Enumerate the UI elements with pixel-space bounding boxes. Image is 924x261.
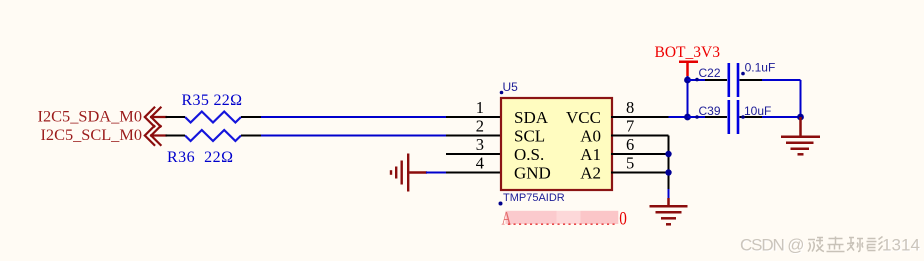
svg-text:A: A xyxy=(502,208,512,229)
wire A0/A1/A2 bus down xyxy=(668,136,670,191)
ground (below A2) xyxy=(650,198,688,224)
svg-text:R36 22Ω: R36 22Ω xyxy=(167,149,233,166)
junction (C39 right / down wire) xyxy=(797,114,804,121)
svg-text:CSDN @: CSDN @ xyxy=(740,236,805,255)
resistor R35 xyxy=(185,112,241,123)
svg-text:R35 22Ω: R35 22Ω xyxy=(182,92,243,109)
svg-text:10uF: 10uF xyxy=(744,104,771,118)
svg-text:C22: C22 xyxy=(699,66,721,80)
off-page connector I2C5_SDA_M0 xyxy=(145,108,166,127)
junction (rail / C39 / pin8) xyxy=(684,114,691,121)
wire SCL (R36 to pin 2) xyxy=(261,135,446,137)
svg-text:VCC: VCC xyxy=(566,108,601,127)
svg-text:7: 7 xyxy=(626,117,634,136)
ground (right of caps) xyxy=(781,117,820,154)
part label dot xyxy=(499,202,503,206)
svg-text:U5: U5 xyxy=(503,80,519,94)
svg-text:8: 8 xyxy=(626,98,634,117)
svg-text:0.1uF: 0.1uF xyxy=(745,61,776,75)
junction (pin 5) xyxy=(665,169,671,175)
junction (rail / C22) xyxy=(684,77,691,84)
wire (ground to pin 4) xyxy=(426,172,446,174)
svg-text:4: 4 xyxy=(476,154,484,173)
resistor R36 xyxy=(185,130,241,141)
censor highlight block xyxy=(506,211,557,224)
designator C22 xyxy=(695,78,699,82)
watermark 1314 xyxy=(882,236,921,256)
svg-text:1314: 1314 xyxy=(882,236,920,255)
junction (pin 6) xyxy=(665,151,671,157)
censored glyph bottoms (dotted) xyxy=(508,223,618,225)
svg-text:BOT_3V3: BOT_3V3 xyxy=(655,44,721,61)
wire pin8 to rail xyxy=(669,116,688,118)
svg-text:SDA: SDA xyxy=(514,108,549,127)
designator C39 xyxy=(695,115,699,119)
pin stubs right (pins 8,7,6,5) xyxy=(611,117,669,173)
svg-text:O.S.: O.S. xyxy=(514,145,544,164)
svg-text:2: 2 xyxy=(476,117,484,136)
svg-text:0: 0 xyxy=(619,208,627,229)
wire SDA (R35 to pin 1) xyxy=(261,116,446,118)
wire VCC rail vertical xyxy=(687,76,689,117)
IC U5 pin stubs left (pins 1-4) xyxy=(446,117,502,173)
svg-text:A0: A0 xyxy=(580,127,601,146)
watermark chinese glyphs (drawn) xyxy=(808,237,883,252)
svg-text:3: 3 xyxy=(476,135,484,154)
svg-text:GND: GND xyxy=(514,164,551,183)
ground (sideways, at GND pin 4) xyxy=(391,154,427,192)
svg-text:5: 5 xyxy=(626,154,634,173)
svg-text:I2C5_SCL_M0: I2C5_SCL_M0 xyxy=(41,127,143,144)
svg-text:A1: A1 xyxy=(580,145,601,164)
svg-text:1: 1 xyxy=(476,98,484,117)
svg-text:SCL: SCL xyxy=(514,127,545,146)
svg-text:I2C5_SDA_M0: I2C5_SDA_M0 xyxy=(38,109,143,126)
svg-text:TMP75AIDR: TMP75AIDR xyxy=(503,192,565,204)
value 10uF xyxy=(741,115,745,119)
svg-text:A2: A2 xyxy=(580,164,601,183)
off-page connector I2C5_SCL_M0 xyxy=(145,126,166,145)
watermark CSDN xyxy=(740,236,806,256)
svg-text:C39: C39 xyxy=(699,104,721,118)
resistor R36 pin leads xyxy=(166,135,262,137)
capacitor C39 xyxy=(688,116,706,118)
wire caps right side down xyxy=(800,80,802,117)
IC U5 body TMP75AIDR xyxy=(501,98,612,190)
capacitor C22 xyxy=(688,79,706,81)
value 0.1uF xyxy=(741,72,745,76)
resistor R35 pin leads xyxy=(166,116,262,118)
designator dot U5 xyxy=(500,91,504,95)
svg-text:6: 6 xyxy=(626,135,634,154)
